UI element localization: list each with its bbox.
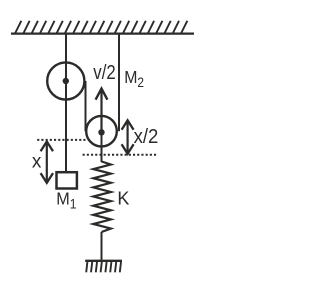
wire: string between pulley P1 right side and movable pulley left tangent <box>85 81 87 131</box>
wire: rod from spring to ground <box>101 232 103 260</box>
pulley P1 axle dot <box>63 78 69 84</box>
svg-text:M2: M2 <box>124 67 144 90</box>
svg-text:x/2: x/2 <box>134 126 159 148</box>
svg-text:x: x <box>32 152 42 173</box>
arrow v/2 (upward velocity arrow from movable pulley center) <box>96 89 108 131</box>
dotted reference line (upper, M1 level) <box>37 139 87 141</box>
pulley P2 axle dot <box>98 129 104 135</box>
wire: left string from ceiling through pulley P1 down to mass M1 <box>65 33 67 172</box>
dotted reference line (lower, pulley level) <box>83 154 157 156</box>
spring K <box>93 162 111 233</box>
arrow x/2 (double-headed, right of movable pulley) <box>122 120 134 154</box>
svg-text:v/2: v/2 <box>93 60 115 83</box>
ceiling line <box>11 32 194 34</box>
pulley P1 (fixed, upper left) <box>47 62 84 99</box>
wire: rod from pulley P2 center down to spring <box>101 132 103 162</box>
ground line <box>85 260 122 262</box>
ceiling hatching <box>15 21 187 34</box>
wire: right string from ceiling to movable pulley right tangent <box>118 33 120 131</box>
svg-text:M1: M1 <box>56 189 76 212</box>
pulley P2 (movable) <box>86 116 117 147</box>
arrow x (double-headed, left side above M1) <box>41 142 53 183</box>
ground hatching <box>86 262 121 272</box>
svg-text:K: K <box>117 188 129 208</box>
mass M1 (block) <box>57 172 77 188</box>
